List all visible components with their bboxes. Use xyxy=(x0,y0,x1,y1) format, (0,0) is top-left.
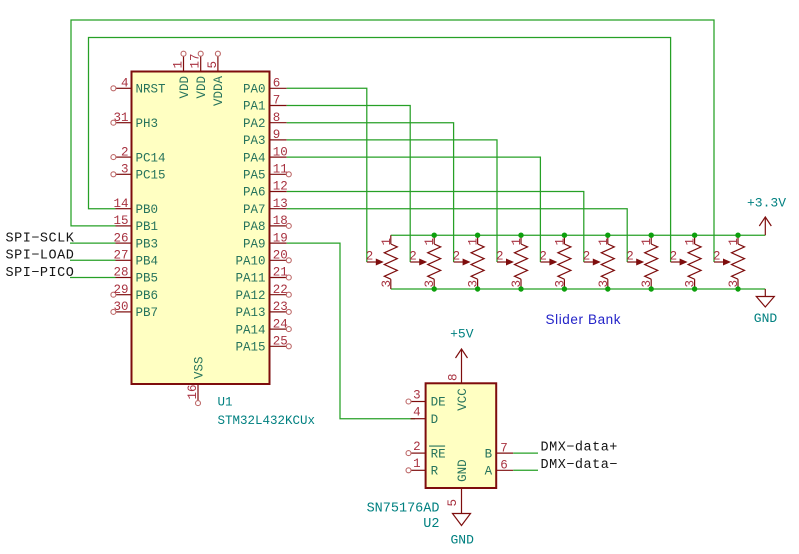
svg-text:1: 1 xyxy=(467,238,481,246)
svg-text:6: 6 xyxy=(273,77,281,91)
svg-text:21: 21 xyxy=(273,266,288,280)
wire SPI−LOAD to U1 xyxy=(70,259,116,261)
svg-text:26: 26 xyxy=(113,231,128,245)
junction slider 3 top rail xyxy=(475,233,480,238)
junction slider 6 bottom rail xyxy=(605,286,610,291)
svg-text:PA3: PA3 xyxy=(243,134,266,148)
U2 pin 1 R xyxy=(406,457,439,478)
U1 pin 10 PA4 (right) xyxy=(243,145,288,165)
svg-text:1: 1 xyxy=(413,457,421,471)
wire PA1 row to slider 2 wiper xyxy=(287,106,411,263)
svg-text:U1: U1 xyxy=(218,396,233,410)
svg-text:PA12: PA12 xyxy=(235,289,265,303)
svg-text:10: 10 xyxy=(273,145,288,159)
svg-text:16: 16 xyxy=(186,384,200,399)
svg-text:Slider Bank: Slider Bank xyxy=(546,312,622,327)
svg-text:11: 11 xyxy=(273,163,288,177)
svg-text:+3.3V: +3.3V xyxy=(747,196,786,211)
junction slider 7 bottom rail xyxy=(649,286,654,291)
svg-text:NRST: NRST xyxy=(136,83,167,97)
svg-text:1: 1 xyxy=(172,61,186,69)
svg-text:3: 3 xyxy=(597,280,611,288)
U2 pin 6 A xyxy=(485,459,514,479)
wire PA9 to U2 pin D xyxy=(287,243,415,419)
U1 pin 30 PB7 (left) xyxy=(111,300,158,320)
svg-text:PB5: PB5 xyxy=(136,272,159,286)
svg-text:RE: RE xyxy=(431,447,446,461)
potentiometer slider 3 xyxy=(453,235,485,289)
U1 pin 7 PA1 (right) xyxy=(243,94,287,114)
svg-text:PA4: PA4 xyxy=(243,151,266,165)
svg-text:3: 3 xyxy=(413,388,421,402)
svg-text:3: 3 xyxy=(640,280,654,288)
svg-text:2: 2 xyxy=(539,250,547,264)
svg-text:PA6: PA6 xyxy=(243,186,266,200)
U1 pin 24 PA14 (right) xyxy=(235,317,291,337)
junction slider 8 top rail xyxy=(692,233,697,238)
U1 pin 1 VDD (top) xyxy=(172,51,192,98)
svg-text:3: 3 xyxy=(553,280,567,288)
svg-text:1: 1 xyxy=(597,238,611,246)
svg-text:3: 3 xyxy=(727,280,741,288)
svg-text:2: 2 xyxy=(413,440,421,454)
U1 pin 23 PA13 (right) xyxy=(235,300,291,320)
U2 pin 7 B xyxy=(485,441,514,461)
wire U2 B to DMX-data+ xyxy=(513,452,538,454)
junction slider 9 top rail xyxy=(735,233,740,238)
junction slider 5 top rail xyxy=(562,233,567,238)
svg-text:1: 1 xyxy=(553,238,567,246)
svg-text:VSS: VSS xyxy=(192,356,206,379)
svg-text:12: 12 xyxy=(273,180,288,194)
svg-text:17: 17 xyxy=(189,53,203,68)
svg-text:VDD: VDD xyxy=(178,76,192,99)
svg-text:PH3: PH3 xyxy=(136,117,159,131)
U1 pin 13 PA7 (right) xyxy=(243,197,288,217)
svg-text:PC14: PC14 xyxy=(136,151,166,165)
svg-text:PB1: PB1 xyxy=(136,220,159,234)
svg-text:VCC: VCC xyxy=(456,388,470,411)
U1 pin 11 PA5 (right) xyxy=(243,163,291,183)
U1 pin 2 PC14 (left) xyxy=(111,145,166,165)
wire PA4 row to slider 5 wiper xyxy=(287,157,541,262)
svg-text:4: 4 xyxy=(413,406,421,420)
svg-text:PA2: PA2 xyxy=(243,117,266,131)
potentiometer slider 8 xyxy=(670,235,702,289)
svg-text:PB3: PB3 xyxy=(136,237,159,251)
svg-text:4: 4 xyxy=(121,77,129,91)
svg-text:28: 28 xyxy=(113,266,128,280)
power symbol +3.3V xyxy=(747,196,786,236)
U2 pin 8 VCC with +5V power symbol xyxy=(447,327,474,411)
svg-text:2: 2 xyxy=(670,250,678,264)
svg-text:GND: GND xyxy=(456,459,470,482)
svg-text:3: 3 xyxy=(380,280,394,288)
U1 pin 3 PC15 (left) xyxy=(111,163,166,183)
wire SPI−PICO to U1 xyxy=(70,277,116,279)
U1 pin 5 VDDA (top) xyxy=(206,51,226,106)
U1 pin 20 PA10 (right) xyxy=(235,249,291,269)
svg-text:8: 8 xyxy=(447,373,461,381)
svg-text:5: 5 xyxy=(206,61,220,69)
svg-text:PA10: PA10 xyxy=(235,255,265,269)
svg-text:A: A xyxy=(485,465,493,479)
junction slider 4 bottom rail xyxy=(518,286,523,291)
IC U1 STM32L432KCUx body xyxy=(132,72,270,385)
svg-text:PA5: PA5 xyxy=(243,169,266,183)
svg-text:DE: DE xyxy=(431,396,446,410)
wire PA6 row to slider 6 wiper xyxy=(287,192,584,263)
wire PA0 row to slider 1 wiper xyxy=(287,88,367,262)
wire +3.3V top rail xyxy=(391,234,766,236)
svg-text:2: 2 xyxy=(453,250,461,264)
potentiometer slider 7 xyxy=(626,235,658,289)
svg-text:GND: GND xyxy=(450,533,474,548)
svg-text:SPI−LOAD: SPI−LOAD xyxy=(6,249,75,264)
svg-text:B: B xyxy=(485,447,493,461)
U1 pin 25 PA15 (right) xyxy=(235,335,291,355)
svg-text:PB7: PB7 xyxy=(136,306,159,320)
potentiometer slider 9 xyxy=(713,235,745,289)
ground symbol GND (slider bank) xyxy=(754,289,778,326)
svg-text:31: 31 xyxy=(113,111,128,125)
wire PA2 row to slider 3 wiper xyxy=(287,123,454,262)
U1 pin 28 PB5 (left) xyxy=(113,266,158,286)
U1 pin 22 PA12 (right) xyxy=(235,283,291,303)
junction slider 8 bottom rail xyxy=(692,286,697,291)
svg-text:2: 2 xyxy=(583,250,591,264)
svg-text:PA8: PA8 xyxy=(243,220,266,234)
U1 pin 17 VDD (top) xyxy=(189,51,209,98)
svg-text:DMX−data+: DMX−data+ xyxy=(541,441,618,456)
svg-text:VDDA: VDDA xyxy=(212,75,226,106)
svg-text:13: 13 xyxy=(273,197,288,211)
U1 pin 18 PA8 (right) xyxy=(243,214,291,234)
U1 pin 19 PA9 (right) xyxy=(243,231,288,251)
svg-text:SPI−SCLK: SPI−SCLK xyxy=(6,232,75,247)
IC U2 SN75176AD body xyxy=(426,383,497,488)
svg-text:R: R xyxy=(431,465,439,479)
junction slider 3 bottom rail xyxy=(475,286,480,291)
U1 pin 6 PA0 (right) xyxy=(243,77,287,97)
U1 pin 31 PH3 (left) xyxy=(111,111,158,131)
U1 pin 29 PB6 (left) xyxy=(111,283,158,303)
U1 pin 16 VSS (bottom) xyxy=(186,356,206,405)
potentiometer slider 4 xyxy=(496,235,528,289)
svg-text:1: 1 xyxy=(727,238,741,246)
svg-text:3: 3 xyxy=(510,280,524,288)
svg-text:PA15: PA15 xyxy=(235,341,265,355)
svg-text:PA13: PA13 xyxy=(235,306,265,320)
wire PB0 over the top to slider 8 wiper xyxy=(89,38,671,263)
junction slider 9 bottom rail xyxy=(735,286,740,291)
svg-text:2: 2 xyxy=(366,250,374,264)
svg-text:8: 8 xyxy=(273,111,281,125)
svg-text:1: 1 xyxy=(684,238,698,246)
svg-text:1: 1 xyxy=(640,238,654,246)
svg-text:PA7: PA7 xyxy=(243,203,266,217)
svg-text:3: 3 xyxy=(121,163,129,177)
svg-text:3: 3 xyxy=(467,280,481,288)
svg-text:7: 7 xyxy=(500,441,508,455)
svg-text:5: 5 xyxy=(446,499,460,507)
U1 pin 12 PA6 (right) xyxy=(243,180,288,200)
svg-text:27: 27 xyxy=(113,249,128,263)
svg-text:25: 25 xyxy=(273,335,288,349)
svg-text:18: 18 xyxy=(273,214,288,228)
svg-text:20: 20 xyxy=(273,249,288,263)
svg-text:29: 29 xyxy=(113,283,128,297)
svg-text:15: 15 xyxy=(113,214,128,228)
svg-text:2: 2 xyxy=(626,250,634,264)
svg-text:PB4: PB4 xyxy=(136,255,159,269)
U1 pin 27 PB4 (left) xyxy=(113,249,158,269)
wire GND bottom rail xyxy=(391,288,766,290)
svg-text:SN75176AD: SN75176AD xyxy=(367,502,440,517)
svg-text:GND: GND xyxy=(754,311,778,326)
svg-text:24: 24 xyxy=(273,317,288,331)
svg-text:1: 1 xyxy=(510,238,524,246)
svg-text:+5V: +5V xyxy=(450,327,474,342)
svg-text:D: D xyxy=(431,413,439,427)
svg-text:U2: U2 xyxy=(423,517,439,532)
wire PA7 row to slider 7 wiper xyxy=(287,209,628,262)
svg-text:PA0: PA0 xyxy=(243,83,266,97)
junction slider 4 top rail xyxy=(518,233,523,238)
svg-text:9: 9 xyxy=(273,128,281,142)
wire U2 A to DMX-data- xyxy=(513,469,538,471)
svg-text:PA9: PA9 xyxy=(243,237,266,251)
junction slider 5 bottom rail xyxy=(562,286,567,291)
U1 pin 4 NRST (left) xyxy=(111,77,166,97)
U1 pin 26 PB3 (left) xyxy=(113,231,158,251)
wire PB1 over the top to slider 9 wiper xyxy=(71,20,714,262)
svg-text:PA1: PA1 xyxy=(243,100,266,114)
U1 pin 21 PA11 (right) xyxy=(235,266,291,286)
svg-text:19: 19 xyxy=(273,231,288,245)
potentiometer slider 1 xyxy=(366,235,398,289)
junction slider 2 top rail xyxy=(432,233,437,238)
svg-text:VDD: VDD xyxy=(195,76,209,99)
svg-text:PA14: PA14 xyxy=(235,323,265,337)
U1 pin 15 PB1 (left) xyxy=(113,214,158,234)
svg-text:14: 14 xyxy=(113,197,128,211)
svg-text:3: 3 xyxy=(423,280,437,288)
svg-text:3: 3 xyxy=(684,280,698,288)
svg-text:PB6: PB6 xyxy=(136,289,159,303)
potentiometer slider 6 xyxy=(583,235,615,289)
U1 pin 9 PA3 (right) xyxy=(243,128,287,148)
potentiometer slider 5 xyxy=(539,235,571,289)
U1 pin 8 PA2 (right) xyxy=(243,111,287,131)
junction slider 2 bottom rail xyxy=(432,286,437,291)
potentiometer slider 2 xyxy=(409,235,441,289)
svg-text:23: 23 xyxy=(273,300,288,314)
U2 pin 5 GND with ground symbol xyxy=(446,459,474,547)
svg-text:6: 6 xyxy=(500,459,508,473)
junction slider 6 top rail xyxy=(605,233,610,238)
svg-text:PC15: PC15 xyxy=(136,169,166,183)
svg-text:22: 22 xyxy=(273,283,288,297)
U2 pin 3 DE xyxy=(406,388,446,409)
svg-text:STM32L432KCUx: STM32L432KCUx xyxy=(218,414,316,428)
U1 pin 14 PB0 (left) xyxy=(113,197,158,217)
wire PA3 row to slider 4 wiper xyxy=(287,140,497,262)
svg-text:7: 7 xyxy=(273,94,281,108)
svg-text:DMX−data−: DMX−data− xyxy=(541,458,618,473)
svg-text:SPI−PICO: SPI−PICO xyxy=(6,266,75,281)
svg-text:1: 1 xyxy=(423,238,437,246)
svg-text:2: 2 xyxy=(496,250,504,264)
svg-text:PB0: PB0 xyxy=(136,203,159,217)
svg-text:30: 30 xyxy=(113,300,128,314)
svg-text:1: 1 xyxy=(380,238,394,246)
wire SPI−SCLK to U1 xyxy=(70,242,116,244)
svg-text:PA11: PA11 xyxy=(235,272,265,286)
svg-text:2: 2 xyxy=(713,250,721,264)
svg-text:2: 2 xyxy=(121,145,129,159)
svg-text:2: 2 xyxy=(409,250,417,264)
U2 pin 4 D xyxy=(411,406,439,427)
U2 pin 2 RE (active low) xyxy=(406,440,446,461)
junction slider 7 top rail xyxy=(649,233,654,238)
